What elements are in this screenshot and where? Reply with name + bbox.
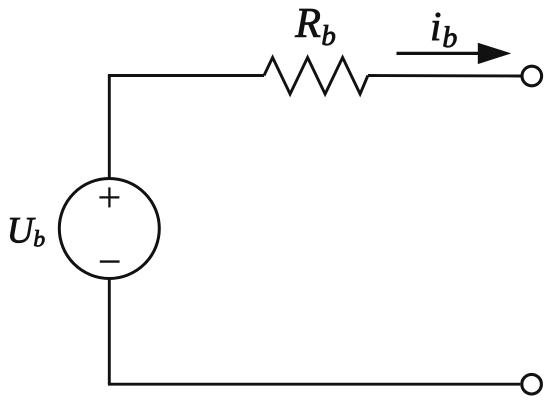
wire bottom horizontal [108,383,520,386]
voltage source plus sign [99,187,119,207]
terminal bottom right [522,374,542,394]
resistor Rb zigzag [264,58,368,95]
wire top horizontal left [108,74,264,77]
voltage source minus sign [100,260,120,262]
voltage source U1 circle [59,179,159,279]
current arrow ib head [478,43,512,64]
terminal top right [522,66,542,86]
current arrow ib shaft [397,52,489,55]
wire left vertical [108,76,111,385]
wire top horizontal right [368,74,521,77]
